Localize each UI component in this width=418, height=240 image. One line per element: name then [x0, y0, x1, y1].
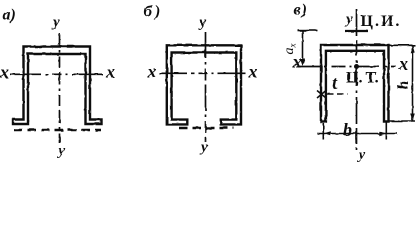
dimension b: right arrow [379, 131, 387, 136]
dimension a_x: top tick [298, 29, 307, 31]
x-axis (fig v) [296, 66, 396, 68]
svg-text:а): а) [3, 7, 16, 24]
channel section contour (fig b, inward feet) [167, 45, 241, 124]
svg-text:y: y [57, 143, 66, 159]
wall thickness t: leader dashes [327, 93, 348, 95]
svg-text:в): в) [294, 2, 308, 19]
svg-text:y: y [199, 140, 208, 156]
dimension h: top arrow [410, 45, 415, 53]
dimension b: line [317, 133, 398, 135]
svg-text:Ц.И.: Ц.И. [361, 13, 402, 30]
svg-text:x: x [0, 62, 9, 82]
dimension b: left arrow [323, 131, 331, 136]
svg-text:x: x [248, 62, 258, 82]
y-axis (vertical centerline, fig a) [59, 33, 61, 143]
y-axis (fig v) [356, 9, 358, 150]
svg-text:Т.: Т. [366, 70, 379, 87]
dimension h: top extension line [389, 44, 416, 46]
dashed bottom line (fig a) [14, 129, 101, 132]
shear centre tick on y-axis [345, 30, 368, 32]
wall thickness t: cross arrow at wall [317, 91, 326, 99]
svg-text:b: b [343, 120, 352, 140]
dashed bottom line (fig b) [179, 127, 234, 130]
dimension h: line [412, 45, 414, 121]
x-axis (horizontal centerline, fig a) [10, 73, 105, 75]
dimension a_x: bottom arrow [300, 59, 305, 67]
y-axis (fig b) [205, 32, 207, 142]
svg-text:Ц.: Ц. [346, 70, 362, 87]
svg-text:h: h [395, 81, 412, 90]
dimension a_x: line [302, 31, 304, 63]
x-axis (fig b) [159, 72, 247, 74]
svg-text:x: x [147, 62, 157, 82]
dimension h: bottom arrow [410, 114, 415, 122]
svg-text:x: x [105, 62, 115, 82]
centroid dot [354, 64, 359, 69]
dimension h: bottom extension line [389, 120, 415, 122]
svg-text:y: y [51, 15, 60, 31]
dimension b: right extension line [385, 123, 387, 140]
dimension b: left extension line [322, 123, 324, 140]
dimension a_x: tick extension dash [306, 29, 317, 31]
channel section contour (fig v, plain) [321, 45, 389, 122]
svg-text:б): б) [144, 4, 163, 21]
channel section contour (fig a, outward feet) [13, 47, 102, 125]
svg-text:y: y [344, 12, 353, 28]
svg-text:y: y [357, 147, 366, 163]
svg-text:y: y [198, 15, 207, 31]
svg-text:x: x [398, 54, 408, 74]
